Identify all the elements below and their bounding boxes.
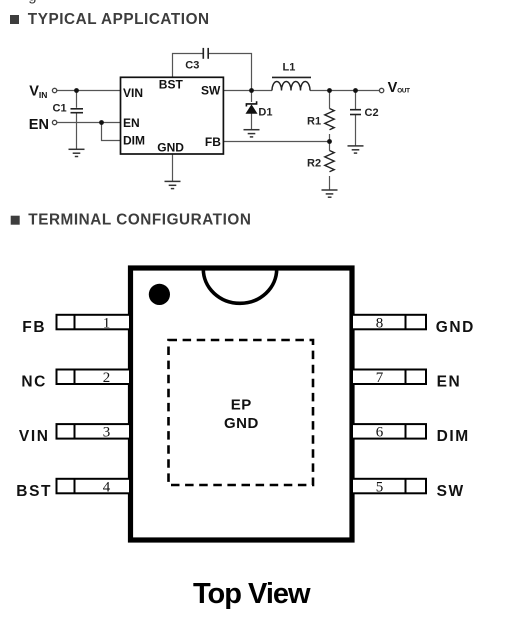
svg-text:7: 7 <box>376 370 384 386</box>
svg-text:1: 1 <box>103 315 111 331</box>
svg-text:5: 5 <box>376 479 384 495</box>
svg-text:TYPICAL APPLICATION: TYPICAL APPLICATION <box>28 11 210 28</box>
svg-text:EP: EP <box>231 396 252 413</box>
svg-text:2: 2 <box>103 370 111 386</box>
svg-text:VIN: VIN <box>29 83 47 100</box>
svg-text:GND: GND <box>436 319 475 336</box>
svg-text:D1: D1 <box>258 107 272 119</box>
svg-text:BST: BST <box>16 483 52 500</box>
svg-text:6: 6 <box>376 425 384 441</box>
svg-text:4: 4 <box>103 479 111 495</box>
svg-text:L1: L1 <box>283 62 296 74</box>
svg-text:GND: GND <box>157 141 184 155</box>
svg-text:8: 8 <box>376 315 384 331</box>
svg-text:Top View: Top View <box>193 578 311 610</box>
svg-text:FB: FB <box>22 319 46 336</box>
svg-text:R2: R2 <box>307 157 321 169</box>
svg-text:SW: SW <box>437 483 465 500</box>
svg-text:VOUT: VOUT <box>388 80 411 96</box>
svg-text:DIM: DIM <box>437 428 470 445</box>
svg-text:3: 3 <box>103 425 111 441</box>
svg-text:GND: GND <box>224 415 259 432</box>
svg-text:C3: C3 <box>185 60 199 72</box>
svg-text:FB: FB <box>205 135 221 149</box>
svg-text:C2: C2 <box>365 107 379 119</box>
svg-text:SW: SW <box>201 84 221 98</box>
svg-text:TERMINAL CONFIGURATION: TERMINAL CONFIGURATION <box>28 212 251 229</box>
svg-text:BST: BST <box>159 78 184 92</box>
svg-text:R1: R1 <box>307 116 321 128</box>
svg-text:EN: EN <box>123 116 140 130</box>
svg-text:DIM: DIM <box>123 134 145 148</box>
svg-text:EN: EN <box>29 117 49 133</box>
svg-text:VIN: VIN <box>19 428 50 445</box>
svg-text:VIN: VIN <box>123 86 143 100</box>
svg-text:C1: C1 <box>53 102 67 114</box>
svg-text:NC: NC <box>21 374 47 391</box>
svg-text:g: g <box>28 0 36 5</box>
svg-text:EN: EN <box>437 374 462 391</box>
